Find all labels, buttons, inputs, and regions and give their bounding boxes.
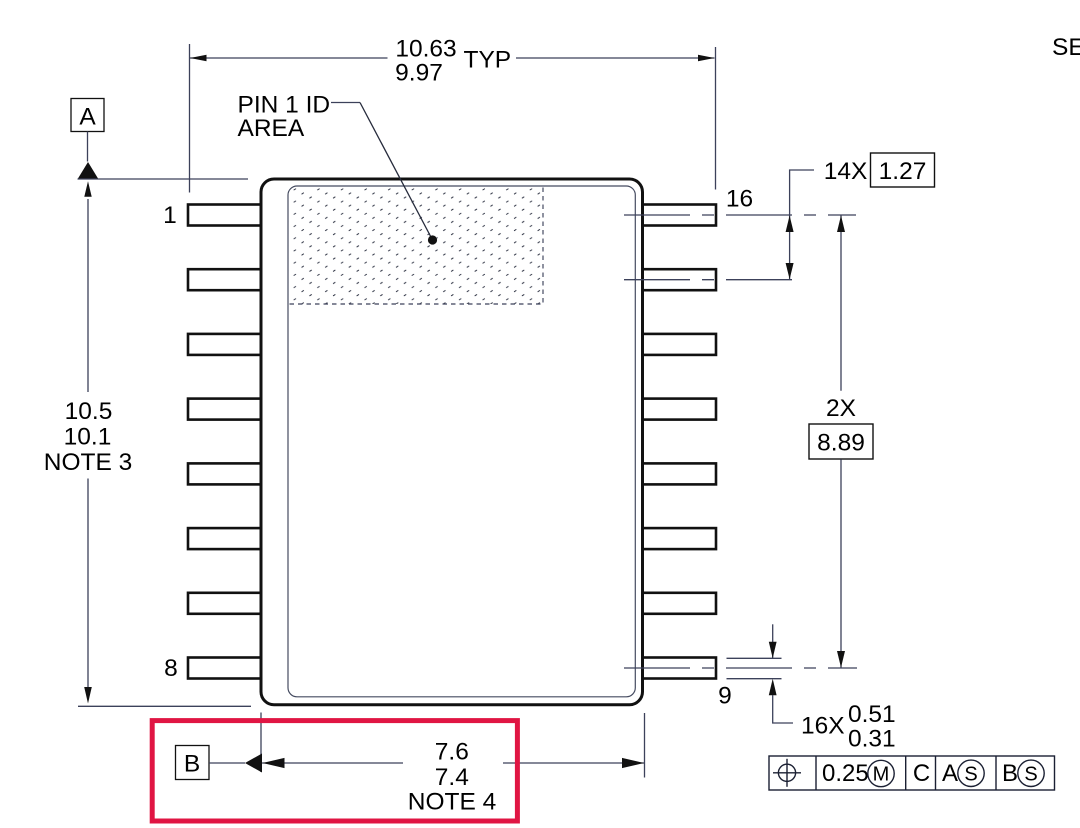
svg-text:0.51: 0.51 [848, 701, 896, 728]
feature control frame [769, 756, 1055, 790]
svg-text:10.63: 10.63 [395, 36, 456, 63]
pin 12 [642, 463, 716, 484]
pin 7 [188, 593, 262, 614]
centerline pin 15 [624, 279, 801, 281]
svg-text:9: 9 [718, 683, 732, 710]
pin 10 [642, 593, 716, 614]
svg-text:C: C [913, 760, 930, 787]
16X 0.51/0.31 lead width dimension [727, 624, 896, 752]
centerline pin 9 [624, 667, 857, 669]
bottom dimension line 7.6/7.4 [262, 758, 644, 768]
pin 15 [642, 269, 716, 290]
wire: bottom dimension left extension line [260, 713, 262, 773]
svg-text:8: 8 [164, 655, 178, 682]
2X 8.89 dimension [809, 216, 873, 668]
svg-text:A: A [79, 104, 96, 131]
wire: top dimension right extension line [715, 47, 717, 190]
svg-text:16X: 16X [801, 713, 845, 740]
svg-text:0.25: 0.25 [822, 760, 869, 787]
svg-text:S: S [1024, 764, 1037, 786]
svg-text:1: 1 [163, 202, 177, 229]
pin 16 [642, 205, 716, 226]
svg-text:AREA: AREA [238, 115, 305, 142]
svg-text:7.4: 7.4 [435, 764, 469, 791]
label: PIN 1 ID AREA [238, 92, 331, 143]
14X 1.27 pitch dimension [786, 153, 935, 280]
red highlight box [152, 721, 517, 821]
svg-text:A: A [942, 760, 958, 787]
svg-text:S: S [964, 764, 977, 786]
label: 10.63 / 9.97 TYP [395, 36, 511, 87]
pin 14 [642, 334, 716, 355]
svg-text:NOTE 4: NOTE 4 [408, 789, 497, 816]
svg-text:14X: 14X [824, 158, 868, 185]
left dimension 10.5/10.1 [84, 181, 92, 703]
svg-text:B: B [1002, 760, 1018, 787]
wire: bottom dimension right extension line [644, 713, 646, 778]
svg-text:B: B [184, 751, 200, 778]
pin 2 [188, 269, 262, 290]
label: 10.5 / 10.1 / NOTE 3 [44, 398, 133, 476]
centerline pin 16 [624, 214, 856, 216]
svg-text:2X: 2X [826, 395, 856, 422]
pin 1 [188, 205, 262, 226]
svg-text:10.5: 10.5 [65, 398, 113, 425]
wire: top dimension left extension line [189, 44, 191, 193]
leader to pin 1 ID area [331, 103, 437, 245]
svg-text:TYP: TYP [464, 47, 512, 74]
pin 3 [188, 334, 262, 355]
svg-text:1.27: 1.27 [879, 158, 927, 185]
svg-text:8.89: 8.89 [817, 429, 865, 456]
package body outer outline [261, 179, 643, 705]
datum B symbol [176, 746, 263, 780]
pin 6 [188, 528, 262, 549]
top dimension line 10.63/9.97 TYP [190, 55, 715, 61]
pin 9 [642, 658, 716, 679]
pin 4 [188, 399, 262, 420]
pin 11 [642, 528, 716, 549]
wire: bottom body extension line [78, 705, 251, 707]
package body top-surface inner outline [288, 186, 635, 697]
pin 13 [642, 399, 716, 420]
svg-text:NOTE 3: NOTE 3 [44, 449, 133, 476]
svg-text:SEE: SEE [1052, 34, 1080, 61]
wire: top body extension line [78, 178, 249, 180]
datum A symbol [71, 99, 104, 180]
svg-text:9.97: 9.97 [395, 60, 443, 87]
pin 8 [188, 658, 262, 679]
pin 1 ID hatched area [289, 187, 543, 304]
svg-text:16: 16 [726, 186, 753, 213]
svg-text:7.6: 7.6 [435, 739, 469, 766]
svg-text:0.31: 0.31 [848, 726, 896, 753]
svg-text:10.1: 10.1 [64, 424, 112, 451]
svg-text:M: M [873, 764, 890, 786]
pin 5 [188, 463, 262, 484]
label: 7.6 / 7.4 / NOTE 4 [408, 739, 497, 816]
